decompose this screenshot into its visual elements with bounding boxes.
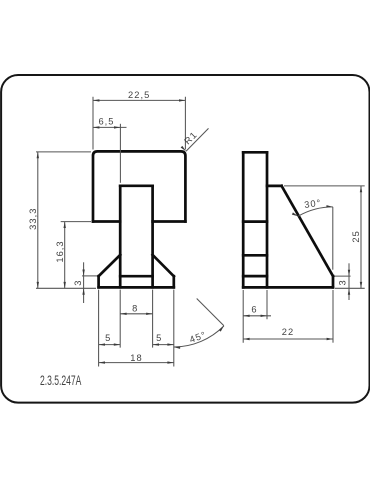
svg-text:2.3.5.247A: 2.3.5.247A	[40, 374, 82, 388]
front view head bottom edge right segment	[153, 220, 186, 223]
front view base bottom edge	[99, 286, 174, 289]
dimension 3 left line	[83, 262, 85, 303]
arrows 33,3	[37, 152, 39, 158]
arrows 25	[360, 186, 362, 192]
front view web right edge	[151, 186, 154, 287]
dimension 33,3 extension lines	[36, 152, 96, 288]
svg-text:22,5: 22,5	[128, 90, 150, 100]
svg-text:33,3: 33,3	[28, 208, 38, 230]
dimension 5 right line	[153, 344, 174, 346]
side view bottom edge	[243, 286, 333, 289]
dimension 6 extension lines	[243, 290, 267, 343]
side view wall division line 3	[243, 275, 267, 278]
dimension 25 line	[360, 186, 362, 288]
front view left 45 deg chamfer	[99, 255, 121, 276]
side view wall division line 1	[243, 220, 267, 223]
arrows 6,5	[93, 126, 99, 128]
arrows 5 left	[99, 343, 105, 345]
dimension 22,5 line	[93, 99, 185, 101]
front view web left edge	[119, 186, 122, 287]
arrows 22,5	[93, 99, 99, 101]
front view right 45 deg chamfer	[153, 255, 174, 276]
svg-text:16,3: 16,3	[55, 240, 65, 262]
side view ledge edge	[267, 185, 282, 188]
dimension 6,5 line	[93, 126, 127, 128]
dimension 5 left line	[99, 344, 121, 346]
arrows 22	[243, 338, 249, 340]
dimension 45 deg reference line	[197, 299, 224, 326]
arrows 16,3	[63, 222, 65, 228]
arrows 30 deg arc	[292, 212, 299, 217]
arrows 5 right	[153, 343, 159, 345]
dimension 3 right extension line	[335, 275, 351, 277]
front view base top middle edge	[120, 275, 152, 278]
side view wall top edge	[243, 151, 267, 154]
dimension 18 extension lines	[99, 290, 174, 367]
front view base left edge	[97, 276, 100, 287]
svg-text:5: 5	[105, 333, 111, 343]
arrows 3 left outside	[82, 270, 84, 276]
svg-text:6: 6	[251, 304, 257, 314]
dimension 3 left extension line	[82, 275, 97, 277]
svg-text:5: 5	[156, 333, 162, 343]
dimension 22 line	[243, 338, 333, 340]
side view right bottom edge	[332, 276, 335, 287]
leader line R1	[186, 128, 209, 151]
front view base right edge	[172, 276, 175, 287]
arrows 8	[120, 313, 126, 315]
dimension 22,5 extension lines	[93, 97, 185, 150]
arrow R1	[181, 146, 187, 152]
dimension 6 line	[243, 315, 271, 317]
dimension 30 deg arc	[298, 207, 333, 216]
arrows 6	[243, 315, 249, 317]
svg-text:18: 18	[130, 353, 142, 363]
side view wall division line 2	[243, 254, 267, 257]
dimension 33,3 line	[37, 152, 39, 288]
dimension 30 deg vertical reference line	[332, 207, 334, 270]
svg-text:25: 25	[351, 230, 361, 242]
dimension 45 deg arc	[174, 326, 224, 347]
dimension 6,5 extension line	[119, 124, 121, 183]
front view head bottom edge left segment	[93, 220, 120, 223]
front view head outline	[93, 151, 185, 221]
dimension 8 extension lines	[120, 290, 152, 348]
dimension 22 extension line	[332, 290, 334, 343]
svg-text:3: 3	[337, 279, 347, 285]
dimension 16,3 extension line	[61, 221, 91, 223]
arrows 3 right outside	[348, 270, 350, 276]
dimension 16,3 line	[64, 222, 66, 289]
svg-text:6,5: 6,5	[98, 117, 114, 127]
dimension 8 line	[120, 313, 152, 315]
dimension 3 right line	[348, 263, 350, 300]
svg-text:8: 8	[132, 303, 138, 313]
arrows 18	[99, 361, 105, 363]
svg-text:3: 3	[73, 279, 83, 285]
dimension 25 extension lines	[284, 186, 365, 288]
dimension 18 line	[99, 362, 174, 364]
svg-text:22: 22	[282, 327, 294, 337]
arrows 45 deg arc	[174, 346, 181, 349]
side view wall right edge	[266, 152, 269, 287]
side view wall left edge	[242, 152, 245, 287]
front view web top edge	[120, 184, 152, 187]
side view 30 deg sloped edge	[282, 186, 333, 276]
